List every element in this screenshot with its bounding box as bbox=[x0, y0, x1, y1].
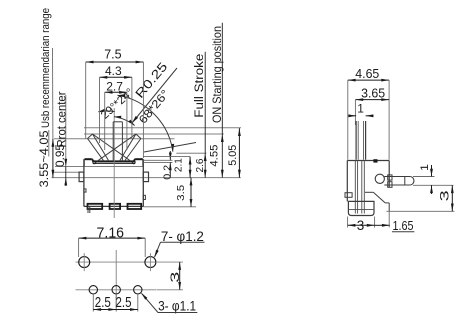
svg-text:3: 3 bbox=[168, 271, 182, 283]
svg-text:7- φ1.2: 7- φ1.2 bbox=[161, 229, 204, 244]
svg-text:3.5: 3.5 bbox=[175, 185, 187, 201]
svg-text:2.5: 2.5 bbox=[95, 295, 111, 311]
svg-text:7.16: 7.16 bbox=[97, 225, 125, 241]
svg-text:Rrot center: Rrot center bbox=[56, 91, 68, 147]
svg-text:2.1: 2.1 bbox=[173, 158, 185, 172]
svg-text:3.65: 3.65 bbox=[361, 87, 385, 101]
svg-text:1: 1 bbox=[357, 102, 364, 116]
svg-text:ON Starting position: ON Starting position bbox=[210, 26, 224, 123]
svg-text:7.5: 7.5 bbox=[104, 48, 121, 62]
svg-text:1: 1 bbox=[419, 164, 431, 171]
svg-text:3: 3 bbox=[357, 218, 365, 233]
svg-text:Full Stroke: Full Stroke bbox=[194, 54, 206, 118]
svg-text:2.6: 2.6 bbox=[194, 158, 206, 172]
svg-text:5.05: 5.05 bbox=[227, 145, 239, 166]
svg-text:4.65: 4.65 bbox=[355, 67, 379, 81]
svg-text:4.3: 4.3 bbox=[105, 64, 122, 78]
svg-text:4.55: 4.55 bbox=[208, 145, 220, 167]
svg-text:2.7: 2.7 bbox=[106, 79, 123, 93]
svg-text:3- φ1.1: 3- φ1.1 bbox=[158, 299, 196, 314]
svg-text:3: 3 bbox=[438, 190, 452, 202]
svg-text:1.65: 1.65 bbox=[393, 218, 414, 233]
svg-text:Usb recemmendarian range: Usb recemmendarian range bbox=[40, 8, 52, 128]
svg-text:2.5: 2.5 bbox=[116, 295, 132, 311]
